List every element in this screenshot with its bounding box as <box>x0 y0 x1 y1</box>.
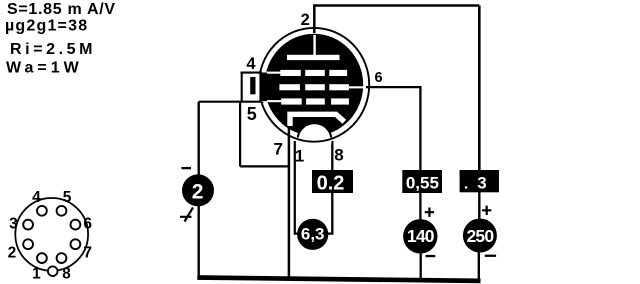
current box 3 <box>460 170 499 192</box>
anode lead white <box>313 35 315 56</box>
socket base circle <box>15 198 88 271</box>
heater voltage 6.3 circle <box>297 219 328 250</box>
plus sign above 140 <box>425 208 434 217</box>
wire 0.55 box to 140 circle <box>419 191 421 220</box>
socket pin 7 hole <box>71 239 81 249</box>
current box 0.2 <box>312 170 353 193</box>
svg-text:Ri=2.5M: Ri=2.5M <box>10 41 96 58</box>
svg-text:1: 1 <box>295 147 304 166</box>
svg-text:3: 3 <box>477 174 486 193</box>
socket pin 8 hole <box>57 253 67 263</box>
svg-text:µg2g1=38: µg2g1=38 <box>5 17 88 34</box>
svg-text:2: 2 <box>8 244 17 261</box>
wire heater pin 8 lower to 6.3 <box>328 192 333 234</box>
tube outer envelope circle <box>259 28 369 142</box>
svg-text:6: 6 <box>83 216 92 233</box>
grid g2 lead white right to pin 6 <box>349 86 364 88</box>
wire heater pin 8 upper to 0.2 box <box>331 141 333 171</box>
svg-text:6: 6 <box>375 70 383 86</box>
wire shield to cathode line <box>240 165 289 167</box>
svg-text:5: 5 <box>247 104 257 124</box>
plus sign above 250 <box>482 206 491 215</box>
wire grid bias vertical through 2V cell <box>197 102 199 277</box>
svg-text:8: 8 <box>334 145 343 164</box>
minus sign above 2V <box>182 167 192 169</box>
svg-text:7: 7 <box>83 244 92 261</box>
svg-text:4: 4 <box>246 55 256 73</box>
svg-text:250: 250 <box>466 226 494 246</box>
grid g1 lead white left to pin 5 wire <box>262 100 282 102</box>
current box 0.55 <box>402 170 442 193</box>
heater circle white fill <box>298 124 332 158</box>
disk edge fill beside notch <box>259 73 267 102</box>
bias cell 2V circle <box>182 174 214 206</box>
cathode white arch <box>290 114 344 126</box>
svg-text:5: 5 <box>63 189 72 206</box>
wire between .3 box and 250 circle <box>478 191 480 220</box>
svg-text:0,55: 0,55 <box>406 174 439 193</box>
svg-text:7: 7 <box>273 140 282 159</box>
svg-text:1: 1 <box>32 266 41 283</box>
socket pin 1 hole <box>37 253 47 263</box>
heater top arc <box>298 123 332 137</box>
shield notch left line <box>241 72 243 102</box>
bottom ground rail <box>197 278 480 281</box>
socket pin 6 hole <box>71 220 81 230</box>
svg-text:0.2: 0.2 <box>317 172 345 194</box>
svg-text:Wa=1W: Wa=1W <box>6 59 83 76</box>
wire shield pin 5 down <box>239 103 241 167</box>
wire screen pin 6 to 0.55 box <box>366 87 420 172</box>
socket key circle <box>48 266 58 276</box>
wire cathode pin 7 down to rail <box>288 127 291 278</box>
shield notch top line pin 4 <box>241 72 262 74</box>
socket pin 3 hole <box>23 220 33 230</box>
shield electrode bar <box>250 77 255 94</box>
grid g1 row dashes <box>281 98 349 104</box>
svg-text:S=1.85 m A/V: S=1.85 m A/V <box>7 1 116 18</box>
shield notch white area <box>241 74 260 100</box>
grid g3 row dashes <box>280 70 347 76</box>
anode plate bar <box>287 55 340 60</box>
svg-text:3: 3 <box>9 216 18 233</box>
grid g2 row dashes <box>279 84 349 90</box>
minus sign below 140 <box>426 255 436 257</box>
wire HT right vertical to .3 box and 250 <box>478 6 481 173</box>
svg-text:6,3: 6,3 <box>301 224 325 243</box>
wire grid g1 left horizontal to bias <box>199 101 264 103</box>
decimal dot in 3 box <box>465 186 467 188</box>
socket pin 2 hole <box>23 239 33 249</box>
screen voltage 140 circle <box>403 219 437 253</box>
svg-text:2: 2 <box>192 181 204 204</box>
anode voltage 250 circle <box>463 219 497 253</box>
svg-text:4: 4 <box>32 189 41 206</box>
socket pin 5 hole <box>57 206 67 216</box>
svg-text:8: 8 <box>62 266 71 283</box>
socket pin 4 hole <box>37 206 47 216</box>
svg-text:140: 140 <box>407 226 435 246</box>
wire anode top from pin 2 to HT rail <box>314 6 479 34</box>
minus sign below 250 <box>485 255 496 257</box>
wire heater pin 1 down to 6.3 <box>295 141 299 234</box>
wire 140 circle to bottom rail <box>420 253 422 282</box>
wire 250 circle to bottom rail <box>478 252 480 282</box>
plus sign below 2V slanted <box>180 208 193 222</box>
tube envelope black disk <box>265 34 364 136</box>
svg-text:2: 2 <box>301 11 310 29</box>
grid g3 lead white left <box>262 72 281 74</box>
